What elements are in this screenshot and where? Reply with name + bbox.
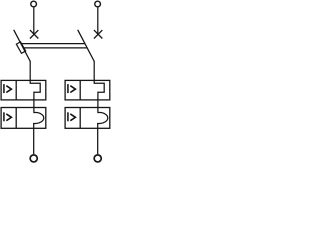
breaker contact X (right pole) [94, 30, 102, 38]
terminal T2 (bottom left) [30, 155, 37, 162]
label I> row2 left [3, 112, 5, 121]
conductor with thermal bump and magnetic loop (right pole) [94, 80, 108, 154]
mechanical linkage line (upper) [21, 43, 85, 45]
label I> row2 right [67, 112, 69, 121]
divider row2 right [79, 108, 81, 129]
divider row1 left [15, 80, 17, 100]
latch rectangle on left blade [16, 42, 25, 54]
divider row1 right [79, 80, 81, 100]
terminal T1 (top left) [31, 1, 37, 7]
wire top-left terminal to contact [33, 7, 35, 34]
wire right blade to release box [93, 61, 95, 81]
switch blade (left pole) [14, 30, 31, 62]
mechanical linkage line (lower) [23, 47, 87, 49]
wire top-right terminal to contact [97, 7, 99, 34]
terminal T4 (bottom right) [94, 155, 101, 162]
label I> row1 right [67, 84, 69, 93]
switch blade (right pole) [78, 30, 95, 62]
release box row1 left pole [1, 80, 46, 100]
label I> row1 left [3, 84, 5, 93]
wire left blade to release box [29, 61, 31, 81]
conductor with thermal bump and magnetic loop (left pole) [30, 80, 44, 154]
release box row1 right pole [65, 80, 110, 100]
release box row2 left pole [1, 108, 46, 129]
breaker contact X (left pole) [30, 30, 38, 38]
terminal T3 (top right) [95, 1, 101, 7]
release box row2 right pole [65, 108, 110, 129]
divider row2 left [15, 108, 17, 129]
